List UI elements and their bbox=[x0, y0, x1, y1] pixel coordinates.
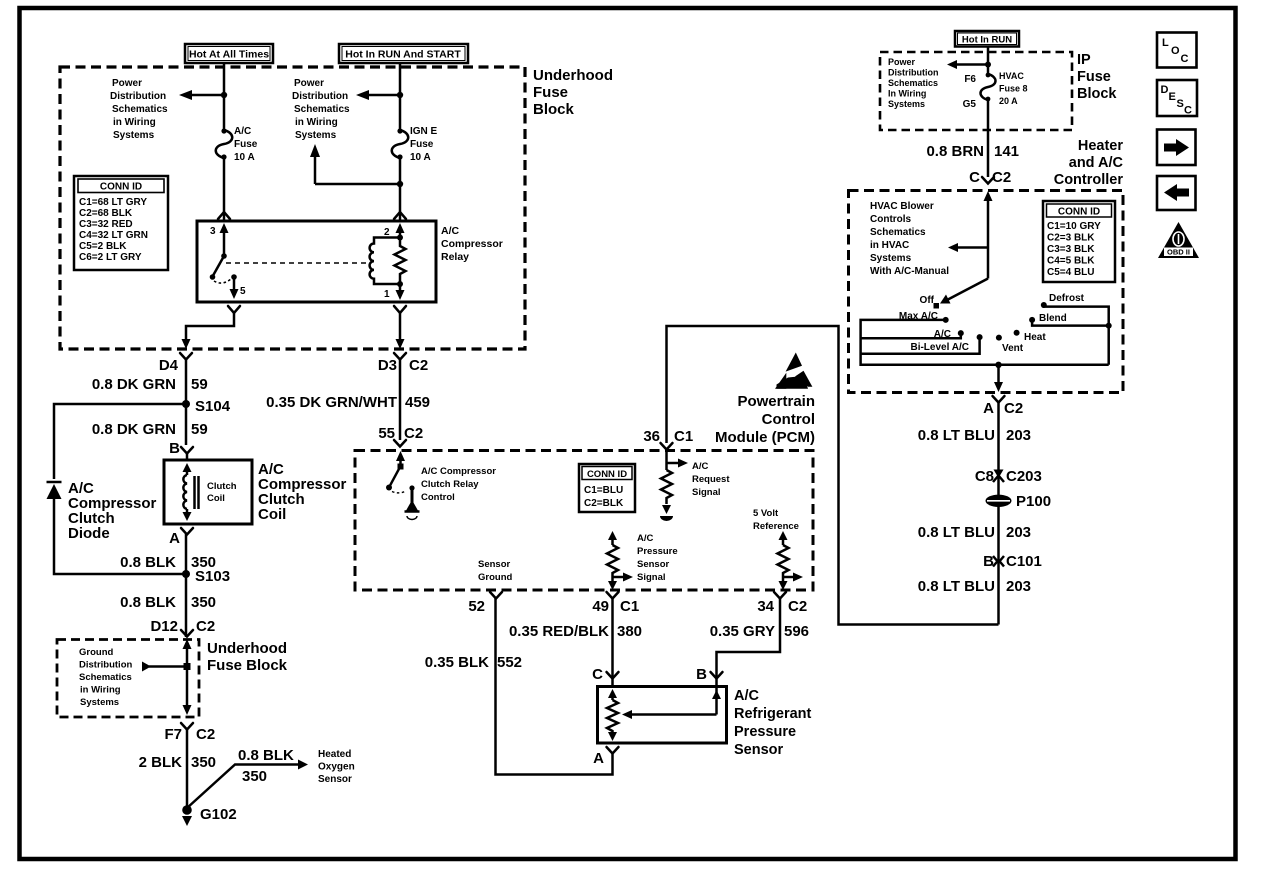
label 0.35 BLK 552 bbox=[425, 654, 522, 671]
svg-text:Fuse: Fuse bbox=[410, 139, 434, 150]
svg-text:0.8 DK GRN: 0.8 DK GRN bbox=[92, 376, 176, 393]
connector A chevron (sensor) bbox=[593, 747, 618, 767]
svg-text:F6: F6 bbox=[964, 74, 976, 85]
svg-text:34: 34 bbox=[757, 598, 774, 615]
svg-text:380: 380 bbox=[617, 623, 642, 640]
svg-text:C6=2 LT GRY: C6=2 LT GRY bbox=[79, 252, 142, 263]
svg-text:Clutch: Clutch bbox=[207, 481, 237, 492]
label 0.35 RED/BLK 380 bbox=[509, 623, 642, 640]
label 0.35 DK GRN/WHT 459 bbox=[266, 394, 430, 411]
svg-text:CONN ID: CONN ID bbox=[100, 182, 142, 193]
svg-text:Sensor: Sensor bbox=[318, 774, 352, 785]
svg-text:OBD II: OBD II bbox=[1167, 248, 1190, 257]
wire hot-in-run to HVAC fuse bbox=[987, 47, 990, 75]
label IP Fuse Block bbox=[1077, 52, 1117, 102]
connector D12 chevron bbox=[181, 630, 193, 637]
arrow to power distribution (left) bbox=[179, 90, 227, 100]
svg-text:in Wiring: in Wiring bbox=[113, 117, 156, 128]
svg-text:59: 59 bbox=[191, 421, 208, 438]
svg-text:C4=5 BLK: C4=5 BLK bbox=[1047, 256, 1095, 267]
svg-text:Heat: Heat bbox=[1024, 332, 1046, 343]
svg-text:Schematics: Schematics bbox=[79, 672, 132, 683]
svg-text:A/C: A/C bbox=[637, 533, 654, 544]
PCM clutch relay control driver bbox=[386, 451, 420, 520]
wire relay pin5 to D4 bbox=[186, 313, 234, 341]
svg-text:C2: C2 bbox=[196, 726, 215, 743]
svg-text:C2: C2 bbox=[196, 618, 215, 635]
label Underhood Fuse Block (ground) bbox=[207, 640, 288, 674]
connector F7 chevron bbox=[181, 723, 193, 730]
label Powertrain Control Module (PCM) bbox=[715, 393, 815, 446]
contact Bi-Level A/C bbox=[910, 334, 982, 353]
svg-text:C3=3 BLK: C3=3 BLK bbox=[1047, 244, 1095, 255]
svg-text:141: 141 bbox=[994, 143, 1019, 160]
svg-text:D4: D4 bbox=[159, 357, 179, 374]
svg-text:350: 350 bbox=[191, 754, 216, 771]
svg-text:C5=4 BLU: C5=4 BLU bbox=[1047, 267, 1095, 278]
svg-text:0.8 BRN: 0.8 BRN bbox=[926, 143, 984, 160]
icon next arrow button bbox=[1157, 130, 1196, 166]
svg-text:Sensor: Sensor bbox=[734, 742, 784, 758]
splice S103 bbox=[182, 568, 230, 585]
svg-text:Module (PCM): Module (PCM) bbox=[715, 429, 815, 446]
svg-text:36: 36 bbox=[643, 428, 660, 445]
connector C8 C203 bbox=[975, 468, 1042, 485]
svg-text:Schematics: Schematics bbox=[112, 104, 168, 115]
wire fuse to relay pin 3 bbox=[223, 157, 226, 221]
svg-text:O: O bbox=[1171, 45, 1180, 57]
svg-text:Fuse Block: Fuse Block bbox=[207, 657, 288, 674]
svg-text:B: B bbox=[169, 440, 180, 457]
svg-text:203: 203 bbox=[1006, 524, 1031, 541]
wire hot-at-all-times to A/C fuse bbox=[223, 63, 226, 130]
svg-text:0.35 BLK: 0.35 BLK bbox=[425, 654, 489, 671]
connector D4 chevron bbox=[180, 353, 192, 360]
relay pin 2 terminal bbox=[384, 223, 405, 238]
svg-text:C: C bbox=[1181, 53, 1189, 65]
relay pin 1 terminal bbox=[384, 284, 405, 300]
connector B C101 bbox=[983, 553, 1042, 570]
sensor ground return wire bbox=[496, 598, 613, 775]
svg-text:C: C bbox=[1184, 105, 1192, 117]
note ground distribution schematics bbox=[79, 647, 132, 708]
wire 49 to sensor C bbox=[611, 598, 614, 686]
svg-text:A: A bbox=[169, 530, 180, 547]
svg-text:C: C bbox=[969, 169, 980, 186]
contact Blend bbox=[1029, 313, 1067, 324]
svg-text:350: 350 bbox=[242, 768, 267, 785]
label Clutch Coil bbox=[207, 481, 237, 504]
svg-text:In Wiring: In Wiring bbox=[888, 89, 926, 99]
note power distribution (IP) bbox=[888, 57, 939, 109]
label A/C Fuse 10 A bbox=[234, 126, 258, 163]
svg-text:Controls: Controls bbox=[870, 214, 912, 225]
relay pin 3 terminal bbox=[210, 223, 229, 256]
svg-text:C8: C8 bbox=[975, 468, 994, 485]
svg-text:B: B bbox=[696, 666, 707, 683]
svg-text:IP: IP bbox=[1077, 52, 1091, 68]
sensor internal resistor bbox=[607, 689, 618, 741]
arrow to power distribution (IP) bbox=[947, 60, 991, 69]
label 0.8 BRN 141 bbox=[926, 143, 1019, 160]
contact Max A/C bbox=[899, 311, 949, 323]
svg-text:Pressure: Pressure bbox=[637, 546, 678, 557]
relay box A/C Compressor Relay bbox=[197, 221, 436, 302]
arrowhead exiting ground box bbox=[183, 705, 192, 715]
svg-text:0.8 BLK: 0.8 BLK bbox=[120, 594, 176, 611]
connector B chevron bbox=[696, 666, 722, 683]
svg-text:in Wiring: in Wiring bbox=[80, 685, 121, 696]
svg-text:59: 59 bbox=[191, 376, 208, 393]
svg-text:F7: F7 bbox=[164, 726, 182, 743]
relay switch blade bbox=[210, 253, 231, 283]
label 2 BLK 350 bbox=[139, 754, 216, 771]
diode branch wire (left loop top) bbox=[54, 404, 186, 479]
svg-text:552: 552 bbox=[497, 654, 522, 671]
icon previous arrow button bbox=[1157, 176, 1196, 210]
svg-text:Control: Control bbox=[762, 411, 815, 428]
wire hot-in-run to IGN E fuse bbox=[399, 63, 402, 130]
clutch coil core bars bbox=[195, 476, 199, 509]
label F7 C2 bbox=[164, 726, 215, 743]
svg-text:D3: D3 bbox=[378, 357, 397, 374]
svg-text:0.8 BLK: 0.8 BLK bbox=[238, 747, 294, 764]
svg-text:Systems: Systems bbox=[113, 130, 155, 141]
svg-text:Schematics: Schematics bbox=[294, 104, 350, 115]
svg-text:C4=32 LT GRN: C4=32 LT GRN bbox=[79, 230, 148, 241]
wire IGN fuse to relay pin 2 bbox=[399, 157, 402, 221]
svg-text:C203: C203 bbox=[1006, 468, 1042, 485]
svg-text:C1: C1 bbox=[674, 428, 693, 445]
label C C2 bbox=[969, 169, 1011, 186]
svg-text:C: C bbox=[592, 666, 603, 683]
svg-text:G102: G102 bbox=[200, 806, 237, 823]
svg-text:Hot In RUN And START: Hot In RUN And START bbox=[345, 49, 461, 61]
svg-text:5 Volt: 5 Volt bbox=[753, 508, 779, 519]
connector C chevron (controller) bbox=[982, 177, 994, 184]
arrowhead entering ground box bbox=[183, 639, 192, 649]
note A/C Pressure Sensor Signal bbox=[637, 533, 678, 583]
svg-text:in Wiring: in Wiring bbox=[295, 117, 338, 128]
svg-text:D: D bbox=[1161, 84, 1169, 96]
svg-text:HVAC: HVAC bbox=[999, 71, 1024, 81]
svg-text:Underhood: Underhood bbox=[207, 640, 287, 657]
arrowhead at dashed edge (left) bbox=[182, 339, 191, 349]
svg-text:Fuse: Fuse bbox=[533, 84, 568, 101]
wire relay pin1 to D3 bbox=[399, 313, 402, 341]
label IGN E Fuse 10 A bbox=[410, 126, 438, 163]
wire 34 to sensor B bbox=[717, 598, 781, 686]
label box Hot At All Times bbox=[185, 44, 273, 63]
arrow to HVAC blower controls bbox=[948, 243, 988, 252]
svg-text:A/C: A/C bbox=[441, 225, 460, 237]
svg-text:C1: C1 bbox=[620, 598, 639, 615]
switch bus wiring bbox=[861, 305, 1109, 365]
svg-text:Block: Block bbox=[533, 101, 575, 118]
label A/C Refrigerant Pressure Sensor bbox=[734, 688, 812, 758]
svg-text:Hot In RUN: Hot In RUN bbox=[962, 35, 1012, 46]
svg-text:1: 1 bbox=[384, 289, 390, 300]
svg-text:L: L bbox=[1162, 37, 1169, 49]
arrow ground distribution to wire bbox=[142, 662, 191, 672]
arrowhead to heated oxygen sensor bbox=[298, 760, 308, 770]
controller feed wire bbox=[984, 191, 993, 279]
label 0.8 BLK 350 (oxygen branch) bbox=[238, 747, 294, 785]
ground distribution dashed box bbox=[57, 640, 199, 718]
label 0.8 DK GRN 59 (upper) bbox=[92, 376, 208, 393]
svg-text:596: 596 bbox=[784, 623, 809, 640]
svg-text:0.35 RED/BLK: 0.35 RED/BLK bbox=[509, 623, 609, 640]
contact Defrost bbox=[1041, 293, 1085, 308]
svg-text:Compressor: Compressor bbox=[441, 238, 503, 250]
svg-text:Power: Power bbox=[112, 78, 142, 89]
A/C refrigerant pressure sensor box bbox=[598, 687, 727, 744]
svg-text:IGN E: IGN E bbox=[410, 126, 438, 137]
wire 36 C1 to controller loop bbox=[667, 326, 999, 625]
svg-text:203: 203 bbox=[1006, 427, 1031, 444]
svg-text:Coil: Coil bbox=[207, 493, 225, 504]
wire F7 to G102 bbox=[186, 729, 189, 808]
label 0.8 DK GRN 59 (lower) bbox=[92, 421, 208, 438]
relay coil resistor bbox=[395, 240, 406, 284]
svg-text:0.35 DK GRN/WHT: 0.35 DK GRN/WHT bbox=[266, 394, 397, 411]
svg-text:Systems: Systems bbox=[888, 99, 925, 109]
ground G102 bbox=[182, 805, 237, 826]
connector B chevron bbox=[169, 440, 193, 460]
svg-text:Ground: Ground bbox=[79, 647, 113, 658]
svg-text:C2: C2 bbox=[1004, 400, 1023, 417]
svg-text:Relay: Relay bbox=[441, 251, 469, 263]
PCM dashed box bbox=[355, 451, 813, 591]
svg-text:Hot At All Times: Hot At All Times bbox=[189, 49, 269, 61]
svg-text:Fuse: Fuse bbox=[234, 139, 258, 150]
CONN ID table (PCM) bbox=[579, 464, 635, 512]
svg-text:5: 5 bbox=[240, 286, 246, 297]
connector 36 chevron bbox=[661, 443, 673, 450]
IP fuse block dashed box bbox=[880, 52, 1072, 130]
fuse HVAC Fuse 8 20A bbox=[963, 73, 996, 110]
diode A/C Compressor Clutch Diode bbox=[47, 482, 62, 499]
svg-text:0.8 DK GRN: 0.8 DK GRN bbox=[92, 421, 176, 438]
branch wire to heated oxygen sensor bbox=[187, 765, 300, 809]
svg-text:Schematics: Schematics bbox=[870, 227, 926, 238]
note power distribution (left) bbox=[110, 78, 168, 141]
note power distribution (middle) bbox=[292, 78, 350, 141]
connector 55 chevron bbox=[394, 440, 406, 447]
branch wire up-arrow to power distribution bbox=[310, 144, 403, 187]
label 0.8 LT BLU 203 (top) bbox=[918, 427, 1031, 444]
contact Vent bbox=[996, 335, 1024, 354]
label 0.8 LT BLU 203 (middle) bbox=[918, 524, 1031, 541]
svg-text:Signal: Signal bbox=[637, 572, 666, 583]
A/C request signal resistor bbox=[660, 450, 688, 521]
underhood fuse block dashed box bbox=[60, 67, 525, 349]
clutch coil winding bbox=[183, 463, 192, 521]
connector 34 chevron bbox=[774, 592, 786, 599]
selector switch blade bbox=[940, 279, 988, 304]
svg-text:in HVAC: in HVAC bbox=[870, 240, 909, 251]
svg-text:Sensor: Sensor bbox=[478, 559, 511, 570]
label 55 C2 bbox=[378, 425, 423, 442]
A/C pressure sensor signal resistor bbox=[607, 531, 633, 590]
svg-text:CONN ID: CONN ID bbox=[587, 469, 627, 480]
svg-text:B: B bbox=[983, 553, 994, 570]
svg-text:C1=10 GRY: C1=10 GRY bbox=[1047, 221, 1101, 232]
svg-text:Ground: Ground bbox=[478, 572, 512, 583]
label A C2 bbox=[983, 400, 1023, 417]
svg-text:10 A: 10 A bbox=[234, 152, 255, 163]
svg-text:55: 55 bbox=[378, 425, 395, 442]
svg-text:0.8 LT BLU: 0.8 LT BLU bbox=[918, 524, 995, 541]
svg-text:Control: Control bbox=[421, 492, 455, 503]
svg-text:Underhood: Underhood bbox=[533, 67, 613, 84]
svg-text:Bi-Level A/C: Bi-Level A/C bbox=[910, 342, 969, 353]
svg-text:C2: C2 bbox=[409, 357, 428, 374]
svg-text:C1=BLU: C1=BLU bbox=[584, 485, 623, 496]
svg-text:350: 350 bbox=[191, 594, 216, 611]
svg-text:A/C Compressor: A/C Compressor bbox=[421, 466, 496, 477]
svg-text:Defrost: Defrost bbox=[1049, 293, 1085, 304]
label 36 C1 bbox=[643, 428, 693, 445]
contact Off bbox=[920, 295, 939, 309]
arrowhead at dashed edge (right) bbox=[396, 339, 405, 349]
svg-text:3: 3 bbox=[210, 226, 216, 237]
svg-text:E: E bbox=[1169, 91, 1176, 103]
label 49 C1 bbox=[592, 598, 639, 615]
CONN ID table (controller) bbox=[1043, 201, 1115, 282]
svg-text:Fuse: Fuse bbox=[1077, 69, 1111, 85]
label 0.35 GRY 596 bbox=[710, 623, 809, 640]
svg-text:A/C: A/C bbox=[234, 126, 251, 137]
svg-text:Power: Power bbox=[888, 57, 916, 67]
relay pin 5 terminal bbox=[230, 274, 247, 299]
connector A C2 chevron (controller output) bbox=[993, 396, 1005, 403]
icon OBD warning triangle bbox=[1158, 222, 1199, 258]
diode branch wire (left loop bottom) bbox=[54, 499, 186, 574]
svg-text:C5=2 BLK: C5=2 BLK bbox=[79, 241, 127, 252]
connector A chevron bbox=[169, 528, 193, 547]
note HVAC blower controls bbox=[870, 201, 949, 277]
svg-text:G5: G5 bbox=[963, 99, 977, 110]
5 volt reference resistor bbox=[778, 531, 804, 590]
svg-text:459: 459 bbox=[405, 394, 430, 411]
label Heater and A/C Controller bbox=[1054, 138, 1124, 188]
connector 49 chevron bbox=[607, 592, 619, 599]
wire HVAC fuse to controller bbox=[987, 99, 990, 177]
arrow to power distribution (middle) bbox=[356, 90, 403, 100]
svg-text:203: 203 bbox=[1006, 578, 1031, 595]
svg-text:52: 52 bbox=[468, 598, 485, 615]
wire D3 to 55 bbox=[399, 359, 402, 440]
label A/C Compressor Clutch Coil bbox=[258, 461, 347, 523]
heater A/C controller dashed box bbox=[849, 191, 1124, 393]
svg-text:C2=BLK: C2=BLK bbox=[584, 498, 624, 509]
label A/C Compressor Clutch Diode bbox=[68, 480, 157, 542]
note A/C Compressor Clutch Relay Control bbox=[421, 466, 496, 503]
svg-text:A/C: A/C bbox=[734, 688, 760, 704]
wire A to S103 bbox=[185, 534, 188, 637]
note A/C Request Signal bbox=[692, 461, 730, 498]
note 5 Volt Reference bbox=[753, 508, 799, 532]
svg-text:Oxygen: Oxygen bbox=[318, 762, 355, 773]
label box Hot In RUN bbox=[955, 31, 1019, 47]
svg-text:P100: P100 bbox=[1016, 493, 1051, 510]
svg-text:Systems: Systems bbox=[870, 253, 912, 264]
clutch coil box bbox=[164, 460, 252, 524]
svg-text:S103: S103 bbox=[195, 568, 230, 585]
connector chevron below relay pin 5 bbox=[228, 306, 240, 313]
svg-text:With A/C-Manual: With A/C-Manual bbox=[870, 266, 949, 277]
fuse IGN E Fuse 10A bbox=[392, 128, 409, 159]
underhood fuse block title bbox=[533, 67, 613, 118]
svg-text:Clutch Relay: Clutch Relay bbox=[421, 479, 479, 490]
label box Hot In RUN And START bbox=[339, 44, 468, 63]
svg-text:20 A: 20 A bbox=[999, 96, 1018, 106]
grommet P100 bbox=[986, 493, 1052, 510]
svg-text:D12: D12 bbox=[150, 618, 178, 635]
contact A/C bbox=[934, 329, 964, 340]
svg-text:2 BLK: 2 BLK bbox=[139, 754, 183, 771]
svg-text:Fuse 8: Fuse 8 bbox=[999, 84, 1028, 94]
svg-text:Vent: Vent bbox=[1002, 343, 1024, 354]
svg-text:Refrigerant: Refrigerant bbox=[734, 706, 812, 722]
svg-text:C2: C2 bbox=[788, 598, 807, 615]
svg-text:C101: C101 bbox=[1006, 553, 1042, 570]
svg-text:Sensor: Sensor bbox=[637, 559, 670, 570]
CONN ID table (underhood fuse block) bbox=[74, 176, 168, 270]
svg-text:C2=3 BLK: C2=3 BLK bbox=[1047, 233, 1095, 244]
label D3 C2 bbox=[378, 357, 428, 374]
svg-text:Systems: Systems bbox=[295, 130, 337, 141]
svg-text:Heater: Heater bbox=[1078, 138, 1123, 154]
splice S104 bbox=[182, 398, 231, 415]
svg-text:Schematics: Schematics bbox=[888, 78, 938, 88]
svg-text:Distribution: Distribution bbox=[888, 68, 939, 78]
svg-text:Powertrain: Powertrain bbox=[737, 393, 815, 410]
label 0.8 BLK 350 (lower) bbox=[120, 594, 216, 611]
label HVAC Fuse 8 20 A bbox=[999, 71, 1028, 106]
svg-text:A: A bbox=[983, 400, 994, 417]
bus junction dots bbox=[995, 323, 1111, 368]
contact Heat bbox=[1014, 330, 1047, 343]
svg-text:Request: Request bbox=[692, 474, 730, 485]
connector 52 chevron bbox=[490, 592, 502, 599]
svg-text:C2=68 BLK: C2=68 BLK bbox=[79, 208, 133, 219]
connector D3 C2 chevron bbox=[394, 353, 406, 360]
svg-text:Power: Power bbox=[294, 78, 324, 89]
svg-text:Blend: Blend bbox=[1039, 313, 1067, 324]
svg-text:Reference: Reference bbox=[753, 521, 799, 532]
note Sensor Ground bbox=[478, 559, 512, 583]
svg-text:S: S bbox=[1177, 98, 1184, 110]
relay coil junction dots bbox=[397, 235, 403, 241]
sensor wiper arm bbox=[622, 687, 721, 720]
ESD sensitive symbol bbox=[775, 353, 812, 389]
label D12 C2 bbox=[150, 618, 215, 635]
icon LOC button bbox=[1157, 33, 1197, 68]
connector chevron below relay pin 1 bbox=[394, 306, 406, 313]
label 0.8 BLK 350 (upper) bbox=[120, 554, 216, 571]
svg-text:Heated: Heated bbox=[318, 749, 351, 760]
svg-text:Off: Off bbox=[920, 295, 935, 306]
svg-text:Coil: Coil bbox=[258, 506, 286, 523]
note heated oxygen sensor bbox=[318, 749, 355, 785]
icon DESC button bbox=[1157, 80, 1197, 117]
svg-text:0.35 GRY: 0.35 GRY bbox=[710, 623, 775, 640]
wire through ground box bbox=[186, 647, 189, 705]
svg-text:and A/C: and A/C bbox=[1069, 155, 1124, 171]
relay dashed actuation link bbox=[226, 262, 367, 264]
